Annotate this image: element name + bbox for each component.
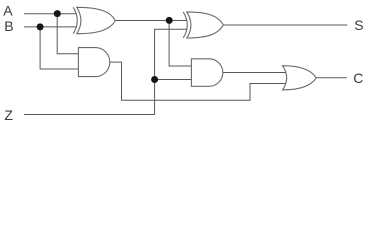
wire A branch to AND1 upper input — [57, 14, 78, 54]
wire B branch to AND1 lower input — [40, 27, 78, 69]
wire XOR2 output to S — [223, 24, 347, 26]
xor gate XOR2 back arc — [183, 12, 187, 38]
svg-text:Z: Z — [4, 107, 13, 123]
and gate AND1 — [78, 48, 109, 77]
xor gate XOR1 body — [77, 7, 116, 33]
wire AND2 output to OR upper input — [223, 72, 286, 74]
svg-text:S: S — [354, 17, 363, 33]
junction node on A line — [54, 10, 61, 17]
wire OR output to C — [316, 77, 347, 79]
junction node on Z riser — [151, 76, 158, 83]
and gate AND2 — [191, 59, 222, 87]
wire Z branch to AND2 lower input — [155, 79, 192, 81]
junction node on B line — [37, 23, 44, 30]
xor gate XOR1 back arc — [73, 7, 77, 33]
wire AND1 output to OR lower input — [110, 62, 286, 100]
wire node drop to AND2 upper input — [169, 21, 191, 67]
wire B input — [24, 26, 77, 28]
wire A input — [24, 13, 77, 15]
svg-text:C: C — [353, 70, 363, 86]
svg-text:B: B — [4, 18, 13, 34]
or gate OR1 — [283, 66, 317, 90]
svg-text:A: A — [3, 3, 13, 19]
wire Z input riser to XOR2 lower input — [24, 29, 187, 114]
xor gate XOR2 body — [187, 12, 224, 38]
junction node on XOR1 output — [166, 17, 173, 24]
wire XOR1 output to XOR2 upper input — [115, 20, 187, 22]
